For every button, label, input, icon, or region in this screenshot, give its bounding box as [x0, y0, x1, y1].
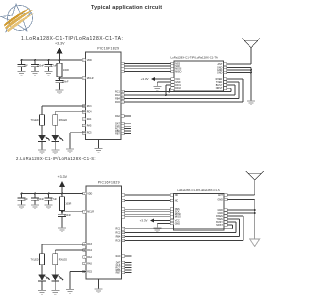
- svg-text:LoRa128X-C1-IP/LoRa128X-C1-S: LoRa128X-C1-IP/LoRa128X-C1-S: [177, 188, 220, 192]
- svg-text:RA5: RA5: [87, 124, 92, 127]
- svg-text:100nF: 100nF: [37, 64, 45, 67]
- S1 MCU GND pin ground: [95, 140, 103, 153]
- S2 SPI bus wires MCU to module: [122, 194, 174, 218]
- S2 MCU left pin labels: [83, 192, 95, 273]
- S1 MCU ground drop wire: [70, 133, 86, 149]
- svg-text:LoRa128X-C1-TIP/LoRa128X-C1-TA: LoRa128X-C1-TIP/LoRa128X-C1-TA: [171, 55, 218, 59]
- svg-text:+3.3V: +3.3V: [141, 77, 149, 81]
- svg-text:TXLED: TXLED: [31, 119, 39, 122]
- svg-text:9: 9: [122, 91, 123, 93]
- S1 module DIO drop wire: [169, 87, 175, 93]
- svg-text:PIC16F1829: PIC16F1829: [97, 47, 119, 51]
- S1 module U2 LoRa128X-C1-TIP/LoRa128X-C1-TA body: [171, 55, 224, 91]
- svg-text:100nF: 100nF: [64, 214, 72, 217]
- S1 ground under C3: [45, 72, 53, 76]
- svg-text:MCLR: MCLR: [87, 77, 94, 80]
- svg-text:NC: NC: [175, 199, 179, 202]
- S2 capacitor C3 4.7uF: [45, 194, 58, 206]
- S1 wrap wire TXEN: [124, 81, 239, 99]
- svg-text:GND: GND: [175, 222, 181, 225]
- svg-text:RB4: RB4: [116, 235, 121, 238]
- title Typical application circuit: [91, 5, 162, 11]
- S2 LED D1: [38, 266, 50, 281]
- svg-text:GND: GND: [217, 71, 223, 74]
- S1 module DIO drop wire: [165, 84, 174, 96]
- svg-text:12: 12: [122, 102, 124, 104]
- svg-text:100R: 100R: [63, 69, 69, 72]
- svg-text:4: 4: [84, 212, 85, 214]
- svg-text:RA4: RA4: [87, 118, 92, 121]
- S1 resistor R1 100R: [57, 60, 69, 78]
- S1 SPI bus wires MCU to module: [121, 62, 174, 73]
- svg-text:+3.3V: +3.3V: [140, 219, 148, 223]
- S1 VDD power rail wire: [21, 59, 86, 61]
- S2 LED D2: [52, 266, 64, 281]
- S1 module left pin labels: [175, 62, 181, 90]
- S2 wrap wire BUSY: [125, 221, 236, 233]
- S1 module GND drop: [157, 81, 174, 87]
- S2 resistor R3 RXLED: [53, 253, 67, 267]
- svg-text:RA0: RA0: [116, 255, 121, 258]
- svg-text:RC6: RC6: [116, 239, 121, 242]
- section 1 heading LoRa128X-C1-TIP/LoRa128X-C1-TA: [21, 36, 123, 42]
- S2 capacitor C4 100nF: [58, 212, 71, 228]
- svg-text:100R: 100R: [65, 203, 71, 206]
- S2 wire module ANT pin to antenna: [224, 194, 255, 197]
- svg-text:1: 1: [84, 193, 85, 195]
- svg-text:PIC16F1829: PIC16F1829: [98, 181, 120, 185]
- svg-text:RA4: RA4: [87, 256, 92, 259]
- S2 module GND drop: [157, 222, 173, 228]
- svg-text:MISO: MISO: [175, 216, 181, 219]
- S1 wrap wire RXEN: [124, 78, 243, 102]
- svg-text:RC4: RC4: [87, 249, 92, 252]
- S1 wire MCU to R2: [42, 106, 86, 114]
- svg-text:12: 12: [122, 240, 124, 242]
- svg-text:3: 3: [84, 257, 85, 259]
- S2 ground at module left: [153, 228, 161, 232]
- svg-text:100nF: 100nF: [62, 80, 70, 83]
- logo star circle: [8, 6, 33, 31]
- section 2 heading LoRa128X-C1-IP/LoRa128X-C1-S: [16, 156, 96, 161]
- S1 module right pin labels: [216, 63, 223, 90]
- S2 MCU GND pin ground: [95, 279, 103, 293]
- S2 module U2 LoRa128X-C1-IP/LoRa128X-C1-S body: [174, 188, 225, 230]
- svg-text:GND: GND: [217, 198, 223, 201]
- svg-text:RC2: RC2: [116, 232, 121, 235]
- svg-text:RA5: RA5: [87, 262, 92, 265]
- logo star outline: [1, 4, 31, 32]
- S1 MCU left pin labels: [82, 59, 94, 135]
- svg-text:100nF: 100nF: [37, 198, 45, 201]
- S2 wire MCU to R3: [55, 250, 86, 253]
- svg-text:1uF: 1uF: [24, 64, 29, 67]
- S1 resistor R2 TXLED: [31, 114, 45, 127]
- svg-text:1.LoRa128X-C1-TIP/LoRa128X-C1-: 1.LoRa128X-C1-TIP/LoRa128X-C1-TA:: [21, 36, 123, 42]
- svg-text:MCLR: MCLR: [87, 211, 94, 214]
- svg-text:10: 10: [122, 95, 124, 97]
- svg-text:1uF: 1uF: [24, 198, 29, 201]
- S2 ground under C1: [18, 205, 26, 209]
- S1 ground at ground bus: [247, 101, 255, 105]
- svg-text:VDD: VDD: [87, 192, 92, 195]
- svg-text:RC5: RC5: [87, 132, 92, 135]
- S2 MCU right bus pins: [116, 227, 125, 242]
- svg-text:4.7uF: 4.7uF: [51, 64, 58, 67]
- S1 capacitor C2 100nF: [31, 60, 44, 72]
- S2 module left pin labels: [175, 194, 181, 226]
- svg-text:RC4: RC4: [87, 111, 92, 114]
- S1 ground under C4: [56, 90, 64, 94]
- S1 ground under C1: [18, 72, 26, 76]
- S2 wrap wire NRST: [125, 224, 232, 229]
- S2 module right pin labels: [216, 194, 223, 227]
- S2 wrap wire RXEN: [125, 215, 243, 241]
- S2 +3.3V supply: [58, 175, 68, 194]
- S1 +3.3V supply: [55, 42, 65, 60]
- S1 capacitor C1 1uF: [18, 60, 29, 72]
- svg-text:9: 9: [123, 229, 124, 231]
- svg-text:RXLED: RXLED: [59, 258, 68, 261]
- S1 capacitor C4 100nF: [56, 78, 69, 90]
- S1 module GND pins to ground bus: [224, 66, 253, 101]
- svg-text:NRST: NRST: [216, 87, 223, 90]
- svg-text:2.LoRa128X-C1-IP/LoRa128X-C1-S: 2.LoRa128X-C1-IP/LoRa128X-C1-S:: [16, 156, 96, 161]
- S2 VDD power rail wire: [21, 193, 87, 195]
- S1 ground at MCU drop: [66, 149, 74, 153]
- svg-text:1: 1: [83, 60, 84, 62]
- svg-text:10: 10: [122, 233, 124, 235]
- S1 LED D1: [38, 127, 50, 142]
- svg-text:VDD: VDD: [87, 59, 92, 62]
- logo wheat swoosh: [4, 8, 35, 32]
- S2 MCU U1 PIC16F1829 body: [86, 181, 122, 279]
- S2 antenna ANT1: [246, 171, 264, 195]
- S2 module GND pins to ground bus: [224, 198, 256, 239]
- S2 wire MCU to R2: [42, 244, 86, 252]
- svg-text:RB7: RB7: [116, 271, 121, 274]
- S1 ground under C2: [31, 72, 39, 76]
- S2 ground under C3: [45, 205, 53, 209]
- svg-text:DIO2: DIO2: [175, 87, 181, 90]
- svg-text:+3.3V: +3.3V: [58, 175, 68, 179]
- S1 wrap wire NRST: [124, 87, 231, 92]
- S1 wire MCU to R3: [55, 112, 85, 114]
- S2 ground under C4: [58, 228, 66, 232]
- svg-text:RC5: RC5: [87, 270, 92, 273]
- S1 MCU right bus pins: [115, 90, 124, 104]
- S2 capacitor C2 100nF: [31, 194, 44, 206]
- svg-text:RB7: RB7: [115, 132, 120, 135]
- svg-text:11: 11: [122, 236, 124, 238]
- S2 ground under C2: [31, 205, 39, 209]
- svg-text:RA0: RA0: [115, 115, 120, 118]
- S1 MCU right stub pins: [115, 115, 131, 136]
- S2 ground at MCU drop: [66, 290, 74, 294]
- svg-text:RC3: RC3: [87, 243, 92, 246]
- S1 wire node to MCLR: [59, 77, 86, 79]
- S1 ground under D1: [38, 141, 46, 153]
- svg-text:RC3: RC3: [87, 105, 92, 108]
- S2 ground at ground bus: [250, 239, 260, 247]
- S1 resistor R3 RXLED: [53, 114, 67, 127]
- S2 MCU right stub pins: [116, 255, 132, 275]
- S1 antenna ANT1: [242, 38, 260, 64]
- svg-text:RC6: RC6: [115, 101, 120, 104]
- S2 capacitor C1 1uF: [18, 194, 29, 206]
- svg-text:4.7uF: 4.7uF: [51, 198, 58, 201]
- svg-text:NC: NC: [175, 194, 179, 197]
- svg-text:NRST: NRST: [216, 224, 223, 227]
- S2 wire node to MCLR: [61, 211, 86, 213]
- svg-text:MISO: MISO: [175, 70, 181, 73]
- svg-text:TXLED: TXLED: [31, 258, 39, 261]
- svg-text:4: 4: [83, 78, 84, 80]
- S1 LED D2: [52, 127, 64, 142]
- svg-text:ANT: ANT: [218, 194, 223, 197]
- S2 resistor R2 TXLED: [31, 253, 45, 267]
- S2 ground under D2: [51, 281, 59, 294]
- S2 MCU ground drop wire: [70, 272, 86, 290]
- S1 ground at module left: [153, 87, 161, 91]
- S2 resistor R1 100R: [60, 194, 72, 212]
- S1 wire module ANT pin to antenna: [224, 63, 252, 66]
- S1 capacitor C3 4.7uF: [45, 60, 58, 72]
- svg-text:+3.3V: +3.3V: [55, 42, 65, 46]
- S1 +3.3V to module VCC: [141, 77, 174, 81]
- S1 wrap wire BUSY: [124, 84, 235, 95]
- S2 +3.3V to module VCC: [140, 218, 174, 222]
- S2 wrap wire TXEN: [125, 218, 240, 237]
- svg-text:Typical application circuit: Typical application circuit: [91, 5, 162, 11]
- svg-text:2: 2: [84, 263, 85, 265]
- S2 ground under D1: [38, 281, 46, 294]
- svg-text:2: 2: [83, 125, 84, 127]
- svg-text:3: 3: [83, 119, 84, 121]
- svg-text:RC1: RC1: [116, 228, 121, 231]
- S1 MCU U1 PIC16F1829 body: [86, 47, 122, 140]
- svg-text:11: 11: [122, 98, 124, 100]
- S1 ground under D2: [51, 141, 59, 153]
- svg-text:RXLED: RXLED: [59, 119, 68, 122]
